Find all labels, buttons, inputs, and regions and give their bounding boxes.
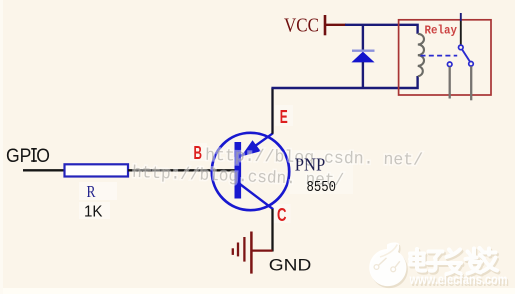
wire VCC red segment — [325, 24, 346, 26]
svg-text:GPIO: GPIO — [6, 146, 50, 167]
VCC bar — [324, 15, 327, 35]
elecfans watermark logo — [369, 242, 406, 286]
white patch behind E — [275, 105, 293, 126]
wire GPIO to resistor — [23, 169, 65, 171]
svg-text:PNP: PNP — [295, 154, 326, 174]
svg-text:GND: GND — [269, 255, 312, 274]
wire emitter vertical — [271, 88, 273, 134]
svg-text:Relay: Relay — [425, 23, 458, 37]
white patch behind C — [274, 204, 291, 223]
svg-text:C: C — [277, 204, 287, 225]
svg-text:B: B — [194, 143, 203, 163]
svg-text:www.elecfans.com: www.elecfans.com — [409, 272, 508, 287]
ground — [233, 232, 273, 274]
svg-text:VCC: VCC — [284, 15, 319, 37]
wire resistor to base — [128, 169, 235, 171]
switch contact right — [469, 62, 474, 67]
resistor R 1K — [65, 164, 129, 176]
wire collector vertical — [271, 209, 273, 252]
switch lead from top — [460, 13, 462, 21]
contact stub left — [449, 67, 451, 99]
relay box — [399, 20, 491, 95]
white patch behind 1K label — [79, 202, 110, 219]
white patch behind PNP/8550 — [289, 150, 353, 194]
relay coil L1 — [418, 34, 424, 77]
dashed link coil to switch — [421, 55, 458, 57]
elecfans watermark logo shadow — [371, 244, 509, 288]
svg-text:E: E — [280, 107, 288, 127]
switch common contact — [459, 45, 464, 50]
svg-text:1K: 1K — [84, 204, 103, 221]
wire bottom rail — [271, 76, 417, 88]
white patch behind R label — [79, 182, 117, 200]
switch arm — [462, 50, 470, 62]
contact stub right — [470, 66, 472, 100]
switch contact left — [447, 62, 452, 67]
white patch behind B — [190, 143, 207, 161]
elecfans chinese title blobs — [410, 248, 497, 274]
diode D1 — [351, 25, 374, 88]
wire top rail navy — [345, 25, 418, 34]
transistor Q1 PNP 8550 — [212, 133, 289, 210]
svg-text:8550: 8550 — [307, 179, 337, 196]
svg-text:R: R — [87, 182, 97, 201]
